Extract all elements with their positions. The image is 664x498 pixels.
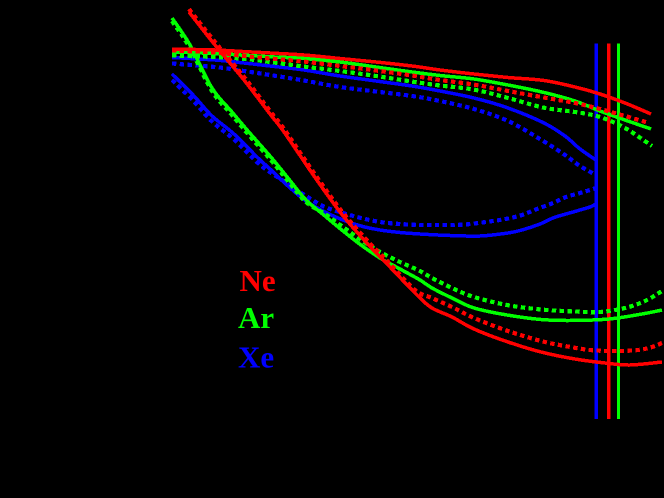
Ne upper dotted curve [172, 51, 649, 124]
red vertical line (Ne) [607, 44, 611, 420]
Ne lower dotted curve [189, 9, 662, 351]
Ne lower solid curve [189, 12, 662, 365]
Xe upper solid curve [172, 58, 596, 161]
Xe lower solid curve [172, 74, 596, 236]
green vertical line (Ar) [617, 44, 620, 420]
Ne upper solid curve [172, 49, 651, 114]
svg-text:Ne: Ne [240, 263, 276, 298]
Ar upper dotted curve [172, 56, 652, 147]
Ar lower dotted curve [172, 21, 662, 312]
svg-text:Ar: Ar [238, 300, 274, 335]
Xe lower dotted curve [172, 80, 596, 225]
Ar upper solid curve [172, 52, 651, 129]
Ar lower solid curve [172, 18, 662, 321]
blue vertical line (Xe) [595, 44, 598, 420]
Xe upper dotted curve [172, 64, 596, 176]
svg-text:Xe: Xe [238, 340, 274, 375]
